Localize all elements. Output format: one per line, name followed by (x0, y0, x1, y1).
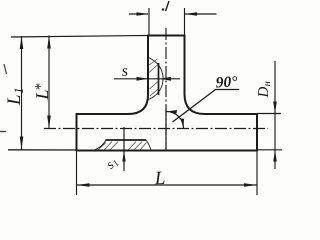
dim Dn: dimension line (274, 61, 276, 169)
90 degree leader (173, 90, 240, 123)
label s (122, 68, 128, 76)
scan specks (4, 64, 7, 74)
run top edge right (205, 113, 258, 115)
tee body outline (77, 36, 258, 151)
centerline vertical (branch axis) (165, 28, 167, 150)
branch top edge (148, 35, 185, 37)
centerline vertical solid segment at junction (165, 108, 167, 150)
label s1 (107, 158, 119, 170)
dim s: arrow line (114, 78, 180, 80)
label L (154, 172, 164, 185)
label 90deg (216, 76, 238, 88)
dim L: extension lines (76, 151, 78, 196)
branch right wall (184, 36, 186, 95)
90 degree angle: arc (167, 112, 184, 129)
branch left wall (147, 36, 149, 96)
dim L1: top extension line (11, 36, 148, 38)
broken-out section lower (run bottom wall) (93, 140, 151, 151)
dim s1: arrow line (123, 127, 125, 171)
top label (clipped) (162, 1, 169, 11)
broken-out section upper (branch wall) (149, 58, 164, 100)
dim L: dimension line (77, 184, 258, 186)
dim L1: dimension line (21, 36, 23, 150)
run right end face (256, 114, 258, 151)
left fillet (128, 95, 148, 114)
run top edge left (77, 113, 129, 115)
run bottom edge (77, 150, 258, 152)
label L1 (8, 89, 23, 105)
dim L1: bottom extension line (8, 149, 77, 151)
label Dn (258, 82, 270, 98)
dim: branch top diameter (129, 8, 217, 36)
right fillet (185, 94, 205, 114)
dim Dn: extension lines (257, 113, 281, 115)
run left end face (76, 114, 78, 151)
label L* (35, 84, 48, 100)
dim L*: dimension line (48, 36, 50, 129)
centerline horizontal (run axis) (44, 128, 268, 130)
